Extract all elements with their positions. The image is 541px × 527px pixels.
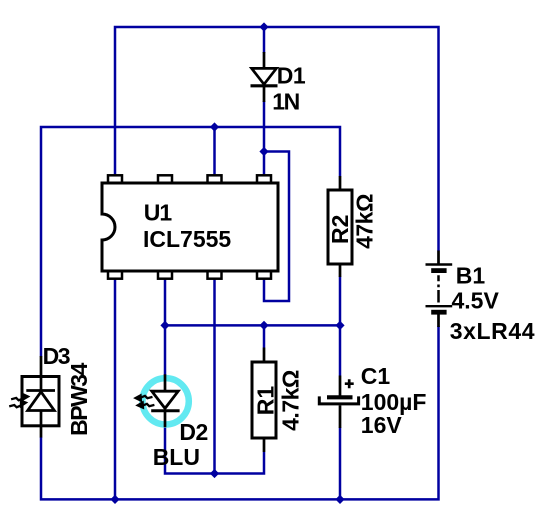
svg-text:16V: 16V	[361, 412, 403, 438]
resistor R2 body	[328, 190, 352, 264]
svg-text:1N: 1N	[272, 88, 299, 114]
wire: battery negative down, bottom ground rail, up to D3 bottom	[41, 326, 439, 499]
svg-text:D2: D2	[179, 419, 207, 445]
wire: D2 cathode down, across, up to R1 bottom	[165, 427, 264, 474]
junction: mid net / R1 top	[259, 321, 268, 330]
wire: D1 cathode down to pin 4 top	[263, 101, 266, 176]
resistor R2 bottom lead	[339, 264, 342, 277]
wire: mid net down to R1 top	[263, 325, 266, 347]
wire: V+ rail from pin 1 top, across top, down right side to battery	[115, 27, 439, 251]
IC U1 pin 6 (bottom row, x=214.5)	[208, 271, 222, 279]
resistor R1 bottom lead	[263, 438, 266, 452]
capacitor C1 plus sign	[345, 379, 354, 388]
wire: middle horizontal net y=325.4	[165, 324, 340, 327]
battery B1 cell 2 long plate	[426, 305, 453, 307]
wire: pin 8 bottom down to ground rail	[114, 278, 117, 499]
svg-text:D1: D1	[277, 62, 306, 88]
photodiode D3 inner anode lead	[40, 411, 43, 426]
wire: R2 bottom through mid net to C1 plus	[339, 277, 342, 376]
resistor R1 top lead	[263, 348, 266, 363]
svg-text:U1: U1	[144, 200, 173, 226]
svg-text:ICL7555: ICL7555	[143, 226, 231, 252]
svg-text:BPW34: BPW34	[66, 362, 92, 435]
photodiode D3 box	[22, 377, 59, 426]
battery B1 cell 1 short plate	[431, 268, 446, 273]
capacitor C1 bottom plate cup	[319, 396, 358, 404]
LED D2 cathode lead	[164, 412, 167, 427]
IC U1 pin 5 (bottom row, x=264)	[257, 271, 271, 279]
wire: pin 3 top stub to y=127 net	[213, 127, 216, 176]
junction: D1 cathode node	[259, 147, 268, 156]
IC U1 pin 2 (top row, x=165)	[158, 175, 172, 183]
junction: top rail / D1	[259, 22, 268, 31]
diode D1 cathode lead	[263, 86, 266, 102]
svg-text:BLU: BLU	[153, 444, 200, 470]
junction: mid net / pin 7 branch	[160, 321, 169, 330]
svg-text:4.7kΩ: 4.7kΩ	[277, 370, 303, 431]
IC U1 pin 3 (top row, x=214.5)	[208, 175, 222, 183]
photodiode D3 inner cathode lead	[40, 377, 43, 391]
photodiode D3 cathode bar	[26, 389, 55, 392]
diode D1 anode lead	[263, 52, 266, 68]
capacitor C1 positive lead	[339, 376, 342, 397]
junction: ground rail / pin 8	[110, 495, 119, 504]
battery B1 cell 2 short plate	[431, 310, 446, 315]
svg-text:47kΩ: 47kΩ	[351, 194, 377, 249]
svg-text:R2: R2	[327, 215, 353, 244]
svg-text:4.5V: 4.5V	[452, 288, 500, 314]
photodiode D3 light arrow lower	[9, 400, 27, 408]
LED D2 anode lead	[164, 374, 167, 391]
wire: C1 minus down to ground rail	[339, 428, 342, 500]
photodiode D3 light arrow upper	[11, 393, 29, 400]
LED D2 triangle	[152, 391, 178, 408]
junction: mid net / R2-C1	[335, 321, 344, 330]
svg-text:3xLR44: 3xLR44	[450, 318, 535, 344]
resistor R1 body	[252, 362, 276, 438]
junction: D2/R1 net / pin 6	[210, 469, 219, 478]
battery B1 negative lead	[437, 314, 440, 327]
diode D1 cathode bar	[251, 84, 278, 87]
svg-text:R1: R1	[252, 386, 278, 416]
IC U1 pin 8 (bottom row, x=115)	[108, 271, 122, 279]
LED D2 light arrow lower	[136, 401, 154, 408]
battery B1 dash-dot cell divider	[437, 275, 440, 302]
photodiode D3 bottom lead	[40, 426, 43, 438]
wire: top rail to D1 anode	[263, 27, 266, 53]
LED D2 highlight ring	[142, 378, 188, 424]
junction: ground rail / C1	[335, 495, 344, 504]
svg-text:B1: B1	[456, 263, 486, 289]
battery B1 positive lead	[437, 251, 440, 265]
LED D2 light arrow upper	[134, 394, 152, 401]
LED D2 cathode bar	[151, 409, 179, 412]
capacitor C1 negative lead	[339, 405, 342, 428]
diode D1 triangle	[252, 68, 277, 84]
IC U1 pin 7 (bottom row, x=165)	[158, 271, 172, 279]
wire: D3 top up, horizontal net at y=127, down to R2 top	[41, 127, 340, 357]
op... IC U1 pin 1 (top row, x=115)	[108, 175, 122, 183]
junction: y=127 net / pin 3	[210, 122, 219, 131]
IC U1 pin 4 (top row, x=264)	[257, 175, 271, 183]
battery B1 cell 1 long plate	[426, 263, 453, 265]
wire: pin 7 bottom down to LED D2 anode	[164, 278, 167, 375]
wire: pin 6 bottom down to D2/R1 net	[213, 278, 216, 474]
svg-text:C1: C1	[361, 363, 391, 389]
IC U1 body with notch	[102, 183, 278, 271]
photodiode D3 top lead	[40, 356, 43, 377]
capacitor C1 top plate	[327, 395, 353, 399]
wire: node at (264,151.5) right, down, to bottom-right pin 5	[264, 152, 289, 302]
resistor R2 top lead	[339, 176, 342, 190]
photodiode D3 triangle	[28, 392, 55, 411]
